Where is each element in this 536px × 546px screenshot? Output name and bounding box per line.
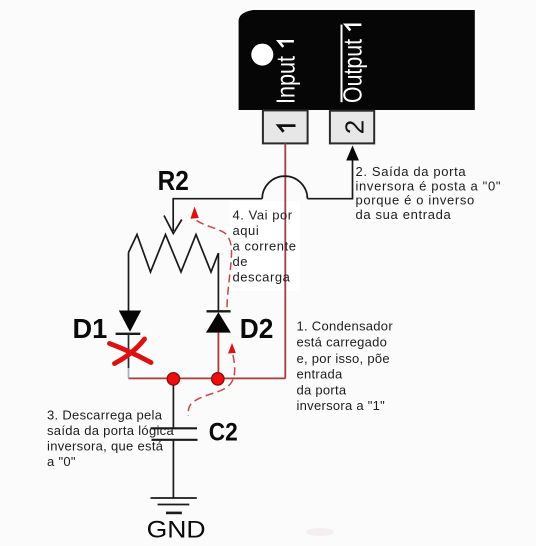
svg-text:GND: GND [147, 516, 206, 543]
svg-text:da porta: da porta [297, 382, 347, 397]
wire hop over red wire [262, 176, 307, 199]
node junction dot A [167, 373, 179, 385]
svg-text:a corrente: a corrente [233, 239, 297, 254]
svg-text:de: de [233, 254, 249, 269]
discharge current dashed path from C2 to D2 [188, 355, 235, 416]
arrow into R2 top (open chevron) [164, 216, 182, 234]
svg-text:3. Descarrega pela: 3. Descarrega pela [47, 407, 163, 422]
capacitor C2 [151, 428, 198, 440]
svg-text:da sua entrada: da sua entrada [356, 207, 452, 222]
node junction dot B [212, 373, 224, 385]
wire: resistor left to D1 [128, 253, 130, 312]
note 4 backing patch [229, 201, 300, 291]
wire: hop to pin 2 [307, 159, 352, 199]
svg-text:4. Vai por: 4. Vai por [233, 208, 293, 223]
svg-text:entrada: entrada [297, 367, 344, 382]
svg-text:está carregado: está carregado [297, 334, 388, 349]
note 2: output forced to 0 [356, 164, 502, 222]
svg-text:1. Condensador: 1. Condensador [297, 319, 394, 334]
diode D2 [206, 311, 231, 332]
svg-text:e, por isso, põe: e, por isso, põe [297, 351, 390, 366]
note 1: capacitor charged [297, 319, 394, 414]
ground [151, 498, 197, 513]
overline over Output 1 [341, 25, 343, 103]
svg-text:inversora, que está: inversora, que está [47, 438, 164, 453]
wire: C2 to ground [172, 440, 174, 498]
svg-text:porque é o inverso: porque é o inverso [356, 193, 475, 208]
wire: D2 to node (red) [217, 333, 219, 379]
blocked-current segment (light blue) [128, 368, 130, 378]
IC pin-1 index dot [251, 44, 273, 66]
svg-text:aqui: aqui [233, 223, 260, 238]
wire: node to C2 [172, 385, 174, 428]
svg-text:saída da porta lógica: saída da porta lógica [47, 423, 174, 438]
svg-text:Input: Input [271, 55, 301, 104]
pin 1 number [279, 126, 296, 132]
pin 1 pad [263, 110, 308, 143]
svg-text:inversora a "1": inversora a "1" [297, 398, 386, 413]
wire: resistor right to D2 [217, 253, 219, 311]
inverter IC U1 body [239, 10, 475, 110]
red X over D1 [110, 339, 152, 364]
svg-text:D2: D2 [240, 313, 274, 344]
D1 lead below bar [128, 334, 130, 368]
pin 2 pad [330, 111, 374, 144]
svg-text:C2: C2 [209, 419, 238, 447]
svg-text:2. Saída da porta: 2. Saída da porta [356, 164, 467, 179]
svg-text:inversora é posta a "0": inversora é posta a "0" [356, 178, 502, 193]
diode D1 (blocked) [116, 311, 142, 334]
faint smudge [306, 528, 334, 536]
svg-text:2: 2 [340, 120, 370, 134]
discharge current dashed path through R2 [197, 221, 232, 308]
svg-text:R2: R2 [158, 165, 189, 196]
svg-text:a "0": a "0" [47, 454, 76, 469]
wire: R2 top up and right [173, 199, 262, 231]
discharge current arrow (into D2) [228, 343, 236, 354]
svg-text:D1: D1 [73, 313, 108, 344]
note 4: discharge current path [233, 208, 297, 285]
resistor R2 [129, 235, 219, 273]
discharge current arrow (top, near R2) [190, 207, 198, 219]
note 3: discharges through inverter output [47, 407, 174, 469]
arrow into pin 2 [346, 146, 359, 161]
wire: pin 1 to node (red, vertical) [284, 143, 286, 378]
wire: feedback bottom (red horizontal) [129, 377, 286, 379]
svg-text:descarga: descarga [233, 270, 291, 285]
